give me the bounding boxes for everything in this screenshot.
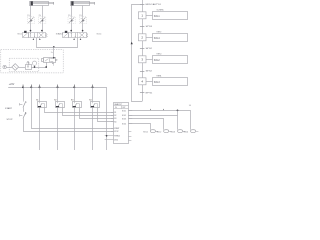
svg-text:4: 4 [26,113,27,115]
svg-text:MODO AUT*S1: MODO AUT*S1 [146,3,162,6]
svg-text:SOL2: SOL2 [122,115,126,117]
svg-text:S3: S3 [114,118,116,120]
svg-text:SOL4: SOL4 [122,123,126,125]
action box SOL1 [153,9,188,20]
3/2-way shut-off valve [42,52,58,66]
wire action link [146,59,153,61]
svg-text:START: START [114,127,119,130]
svg-text:IN: IN [115,107,117,109]
wire output 2 [128,115,177,117]
node rail junction 5 [73,86,75,88]
wire [177,110,179,129]
wire [57,87,59,101]
valve solenoid coil SOL4 [184,130,199,134]
loop arrowhead [131,42,133,44]
wire P supply valve V2 [54,38,78,48]
svg-text:1G: 1G [189,105,192,107]
step 3 [138,56,146,63]
transition T3 [140,48,153,50]
svg-text:PARD: PARD [157,31,163,34]
node junction [177,110,179,112]
wire output 1 [128,111,190,130]
svg-text:S2: S2 [114,115,116,117]
wire action link [146,37,153,39]
step 1 [138,12,146,19]
wire S1 signal to controller [45,108,114,113]
wire riser from service unit [53,47,55,58]
transition T4 [140,71,153,73]
svg-text:SOL4: SOL4 [154,38,161,40]
svg-text:SOL3: SOL3 [58,34,63,36]
svg-text:S4*S2: S4*S2 [146,48,153,50]
node rail junction 3 [39,86,41,88]
wire [42,24,44,33]
transition T2 [140,26,153,28]
svg-text:2%: 2% [39,15,42,17]
wire [74,87,76,101]
svg-text:S3: S3 [71,99,74,101]
pressure gauge [32,61,36,67]
wire action link [146,81,153,83]
wire to shut-off valve [44,62,47,68]
valve solenoid coil SOL1 [143,130,158,134]
air service unit enclosure [1,50,63,73]
svg-text:SOL1: SOL1 [154,16,161,18]
wire sensor return [92,108,94,150]
5/2-way double pilot valve V3 [58,30,101,40]
svg-text:SuPARA: SuPARA [157,9,165,12]
node rail junction 6 [92,86,94,88]
wire [30,6,32,17]
svg-text:SOL3: SOL3 [154,82,161,84]
wire [82,24,84,33]
node rail junction 2 [30,86,32,88]
svg-text:+24V: +24V [9,84,15,86]
svg-text:OUT: OUT [122,107,125,109]
action box SOL4 [153,31,188,42]
wire [30,24,32,33]
svg-text:2%: 2% [79,15,82,17]
svg-text:3: 3 [26,102,27,104]
svg-text:0V24: 0V24 [114,139,118,141]
svg-text:START: START [5,107,13,110]
proximity switch S3 [71,99,82,108]
one-way flow control valve F2 [39,15,46,23]
svg-text:SOL3: SOL3 [171,131,176,133]
SFC return loop [132,5,143,102]
wire output 4 [128,124,150,130]
svg-text:S2*S3: S2*S3 [146,26,153,28]
pushbutton START (NO) [5,101,27,110]
node supply junction [53,46,55,48]
svg-text:S4: S4 [114,121,116,123]
wire sensor return [39,108,41,150]
svg-text:SOL4: SOL4 [184,131,189,133]
+24V supply rail [8,87,106,89]
svg-text:SOL2: SOL2 [157,131,162,133]
wire output 3 [128,119,163,130]
node gauge junction [34,66,36,68]
svg-text:STOP: STOP [7,119,13,121]
wire S2 signal to controller [63,108,114,116]
5/2-way double pilot valve V1 [17,30,60,40]
pushbutton STOP (NC) [7,112,27,121]
node valve outlet [53,57,55,59]
action box SOL3 [153,75,188,86]
svg-text:S1: S1 [114,112,116,114]
wire [39,87,41,101]
node [45,66,47,68]
svg-text:SOL4: SOL4 [97,34,102,36]
svg-text:S1: S1 [36,99,39,101]
wire 24V feed down right [106,87,108,150]
svg-text:SOL1: SOL1 [143,131,148,133]
step 4 [138,78,146,85]
valve solenoid coil SOL3 [171,130,186,134]
node rail junction 1 [22,86,24,88]
one-way flow control valve F4 [79,15,86,23]
wire [31,67,44,69]
SFC chain line [142,0,144,101]
GRAFCET I/O controller U1 [105,103,133,144]
wire S3 signal to controller [80,108,114,119]
transition T1 [140,3,162,6]
wire [82,6,84,17]
wire sensor return [74,108,76,150]
svg-text:SOL3: SOL3 [122,118,126,120]
wire [71,24,73,33]
svg-text:GRAFCET: GRAFCET [114,103,122,106]
svg-text:SOL1: SOL1 [17,34,22,36]
svg-text:2%: 2% [68,15,71,17]
svg-text:PWR24: PWR24 [114,136,120,138]
wire action link [146,15,153,17]
svg-text:SOL2: SOL2 [154,60,161,62]
cylinder A1 [30,1,54,5]
wire P supply valve V1 [37,38,54,48]
wire S4 signal to controller [98,108,114,122]
step 2 [138,34,146,41]
wire [23,87,25,101]
wire [19,67,25,69]
one-way flow control valve F3 [68,15,75,23]
proximity switch S1 [36,99,46,108]
svg-text:NP*S1: NP*S1 [146,92,153,94]
wire to controller input 5 [32,87,114,128]
cylinder A2 [71,1,95,5]
svg-text:S4: S4 [89,99,92,101]
svg-text:PARQ: PARQ [157,53,163,56]
compressed air source [3,65,6,68]
svg-text:STOP: STOP [114,131,118,133]
node rail junction 4 [57,86,59,88]
filter/regulator sub-enclosure [9,58,39,71]
one-way flow control valve F1 [27,15,34,23]
pressure regulator [26,61,32,69]
wire [71,6,73,17]
wire [23,108,25,112]
valve solenoid coil SOL2 [157,130,172,134]
svg-text:S3*S2: S3*S2 [146,71,153,73]
filter with water separator [12,64,19,71]
wire to controller input 6 [24,119,114,132]
svg-text:S2: S2 [54,99,57,101]
svg-text:SOL1: SOL1 [122,110,126,112]
wire [42,6,44,17]
svg-text:2a: 2a [51,52,53,54]
svg-text:2%: 2% [27,15,30,17]
proximity switch S2 [54,99,64,108]
wire [6,67,12,69]
wire sensor return [57,108,59,150]
proximity switch S4 [89,99,99,108]
action box SOL2 [153,53,188,64]
svg-text:PARA: PARA [157,75,163,78]
transition T5 [140,92,153,94]
wire [92,87,94,101]
